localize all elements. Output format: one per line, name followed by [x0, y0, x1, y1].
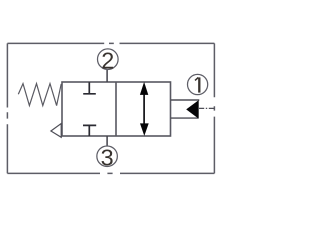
- svg-text:3: 3: [101, 144, 114, 170]
- svg-text:2: 2: [101, 47, 114, 73]
